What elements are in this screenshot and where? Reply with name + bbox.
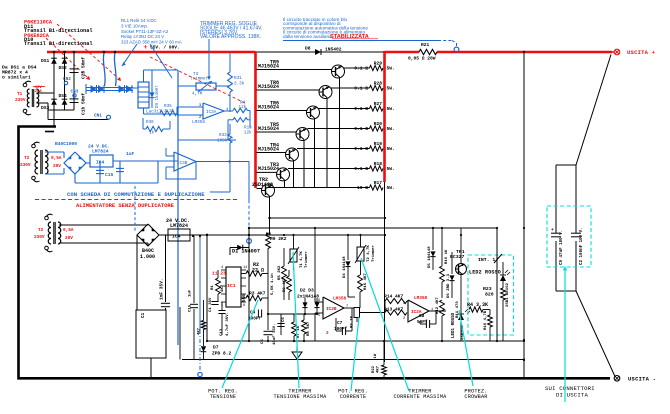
svg-text:USCITA +: USCITA +: [627, 50, 655, 56]
svg-text:1W: 1W: [374, 353, 378, 358]
svg-text:LED2 ROSSO: LED2 ROSSO: [469, 270, 501, 276]
svg-text:5W.: 5W.: [387, 86, 395, 92]
svg-text:5W.: 5W.: [387, 126, 395, 132]
svg-text:IC2B: IC2B: [326, 307, 337, 312]
svg-text:0.1 Ω: 0.1 Ω: [354, 146, 368, 152]
svg-text:Relay LY3NJ DC 24 V: Relay LY3NJ DC 24 V: [121, 34, 164, 39]
svg-text:R31: R31: [234, 76, 242, 81]
svg-text:D4 1N4148: D4 1N4148: [343, 256, 347, 278]
svg-text:230V: 230V: [20, 163, 31, 168]
svg-text:R6 4K7: R6 4K7: [283, 277, 287, 292]
svg-text:0.1 Ω: 0.1 Ω: [354, 166, 368, 172]
svg-text:3: 3: [199, 104, 201, 108]
svg-text:IC4: IC4: [172, 234, 181, 240]
svg-text:DI USCITA: DI USCITA: [556, 392, 588, 399]
svg-text:R27: R27: [374, 101, 383, 107]
svg-text:3.3k: 3.3k: [164, 109, 175, 114]
svg-text:TENSIONE: TENSIONE: [210, 394, 237, 400]
svg-text:5W.: 5W.: [387, 106, 395, 112]
svg-text:4K7: 4K7: [377, 365, 381, 373]
svg-text:LED1 ROSSO: LED1 ROSSO: [452, 312, 456, 338]
svg-text:LM358: LM358: [414, 296, 428, 301]
svg-text:12k: 12k: [239, 105, 247, 110]
svg-text:IC3B: IC3B: [177, 161, 188, 166]
svg-text:4,7uF 35V.: 4,7uF 35V.: [226, 312, 230, 336]
svg-text:USCITA -: USCITA -: [628, 377, 656, 383]
svg-text:dalla tensione ausiliarie: dalla tensione ausiliarie: [283, 34, 332, 39]
svg-text:T2: T2: [24, 156, 30, 161]
svg-text:LM358: LM358: [192, 120, 205, 125]
svg-text:3: 3: [403, 302, 405, 306]
svg-text:3.3k: 3.3k: [234, 82, 245, 87]
svg-text:R18: R18: [374, 161, 383, 167]
svg-text:R36: R36: [146, 120, 154, 125]
svg-text:D9 1N4007: D9 1N4007: [156, 85, 160, 108]
svg-text:1.000: 1.000: [140, 254, 155, 260]
svg-text:D6 ZRD 3.3: D6 ZRD 3.3: [447, 273, 451, 298]
svg-text:R22: R22: [372, 365, 376, 373]
svg-text:CON SCHEDA DI COMMUTAZIONE E D: CON SCHEDA DI COMMUTAZIONE E DUPLICAZION…: [67, 191, 205, 198]
svg-text:5: 5: [318, 314, 320, 318]
svg-text:MJ15024: MJ15024: [258, 63, 279, 69]
svg-text:C2b 50mf: C2b 50mf: [81, 57, 87, 79]
svg-text:T2 4,7K: T2 4,7K: [367, 245, 371, 262]
svg-text:5W.: 5W.: [387, 66, 395, 72]
svg-text:1: 1: [431, 308, 433, 312]
svg-text:T2: T2: [38, 228, 44, 233]
svg-text:0.1 Ω: 0.1 Ω: [354, 106, 368, 112]
svg-text:+: +: [551, 228, 554, 233]
svg-text:D1 1N4007: D1 1N4007: [232, 249, 260, 255]
svg-text:R29: R29: [374, 61, 383, 67]
svg-text:20V: 20V: [65, 236, 73, 241]
svg-text:0.1 Ω: 0.1 Ω: [354, 126, 368, 132]
svg-text:8: 8: [243, 304, 245, 308]
svg-text:20V: 20V: [53, 164, 61, 169]
svg-text:DS4: DS4: [59, 93, 68, 99]
svg-text:T1 4,7K: T1 4,7K: [300, 251, 304, 268]
svg-text:10uF 35V.: 10uF 35V.: [273, 323, 277, 345]
svg-text:2: 2: [326, 331, 329, 336]
svg-text:2x1N4148: 2x1N4148: [297, 294, 319, 300]
svg-text:LM358: LM358: [333, 297, 347, 302]
svg-text:C1: C1: [141, 312, 146, 318]
svg-text:DS3: DS3: [41, 105, 50, 111]
svg-text:LM7824: LM7824: [92, 149, 109, 155]
svg-text:DS2: DS2: [59, 65, 68, 71]
svg-text:R16 4,7B: R16 4,7B: [484, 310, 488, 330]
svg-text:Trimmer: Trimmer: [371, 245, 376, 262]
svg-text:C2 100nF 100 V.: C2 100nF 100 V.: [580, 227, 584, 265]
svg-text:2SB1 BE162: 2SB1 BE162: [506, 282, 510, 307]
svg-text:4,7M: 4,7M: [192, 92, 203, 97]
svg-text:R9 2K2: R9 2K2: [270, 236, 287, 242]
svg-text:6: 6: [318, 299, 320, 303]
svg-text:10 Ω: 10 Ω: [357, 185, 368, 191]
svg-text:4K7: 4K7: [221, 284, 225, 292]
svg-text:C15: C15: [189, 304, 193, 312]
svg-text:T1: T1: [17, 92, 23, 97]
svg-text:R1: R1: [211, 285, 215, 290]
svg-text:55V. / 90V.: 55V. / 90V.: [150, 45, 180, 51]
svg-text:TENSIONE MASSIMA: TENSIONE MASSIMA: [273, 394, 327, 400]
svg-text:1uF: 1uF: [189, 289, 193, 297]
svg-text:R7 1K: R7 1K: [297, 325, 301, 338]
svg-text:1: 1: [221, 304, 223, 308]
svg-text:R10 1K: R10 1K: [445, 249, 449, 264]
svg-text:0,5A: 0,5A: [63, 228, 74, 233]
svg-text:D7: D7: [213, 345, 219, 351]
svg-text:0.1 Ω: 0.1 Ω: [354, 66, 368, 72]
svg-text:0.1 Ω: 0.1 Ω: [354, 86, 368, 92]
svg-text:C7: C7: [337, 321, 343, 326]
svg-text:ALIMENTATORE SENZA DUPLICATORE: ALIMENTATORE SENZA DUPLICATORE: [76, 202, 175, 209]
svg-text:CORRENTE MASSIMA: CORRENTE MASSIMA: [393, 394, 447, 400]
svg-text:STABILIZZATA: STABILIZZATA: [330, 34, 369, 40]
svg-text:R19: R19: [374, 141, 383, 147]
svg-text:CROWBAR: CROWBAR: [464, 394, 487, 400]
svg-text:14: 14: [243, 266, 247, 270]
svg-text:CORRENTE: CORRENTE: [340, 394, 367, 400]
svg-text:2: 2: [403, 317, 405, 321]
svg-text:5W.: 5W.: [387, 185, 395, 191]
svg-text:100k: 100k: [217, 139, 228, 144]
svg-text:1uF: 1uF: [126, 151, 135, 157]
svg-text:5W.: 5W.: [387, 166, 395, 172]
svg-text:230V: 230V: [15, 98, 26, 103]
svg-text:B40C1000: B40C1000: [55, 141, 77, 147]
svg-text:LM7824: LM7824: [170, 223, 188, 229]
svg-text:R5 2K2: R5 2K2: [278, 265, 282, 280]
svg-text:C15: C15: [105, 172, 114, 178]
svg-text:0,5A: 0,5A: [51, 156, 62, 161]
svg-text:0,05 Ω 20W: 0,05 Ω 20W: [408, 56, 436, 62]
svg-text:MJ15024: MJ15024: [258, 104, 279, 110]
svg-text:MJ15024: MJ15024: [258, 166, 279, 172]
svg-text:Trimmer: Trimmer: [304, 251, 309, 268]
svg-text:C1 35V: C1 35V: [209, 297, 213, 312]
svg-text:o similari: o similari: [2, 75, 31, 81]
svg-text:R17: R17: [374, 180, 383, 186]
svg-text:C6: C6: [282, 317, 286, 322]
svg-text:MJ15024: MJ15024: [258, 84, 279, 90]
svg-text:R8 4K7: R8 4K7: [307, 321, 311, 336]
svg-text:R23: R23: [483, 286, 492, 292]
svg-text:7: 7: [346, 305, 348, 309]
svg-text:D8: D8: [305, 46, 311, 52]
svg-text:C1b 50mf: C1b 50mf: [81, 93, 87, 115]
svg-text:11 23: 11 23: [212, 271, 226, 277]
svg-text:5,6K 1-1n: 5,6K 1-1n: [271, 273, 275, 295]
svg-text:Socket PT11-13F-3Z-A2: Socket PT11-13F-3Z-A2: [121, 29, 169, 34]
svg-text:C9 47uF 100 V.: C9 47uF 100 V.: [560, 230, 564, 265]
svg-text:3 VIE 10Amp.: 3 VIE 10Amp.: [121, 23, 148, 28]
svg-text:R21: R21: [421, 42, 430, 48]
svg-text:820: 820: [485, 292, 494, 298]
svg-text:R12 4K7: R12 4K7: [436, 297, 440, 314]
svg-text:BC327: BC327: [450, 254, 465, 260]
svg-text:323 AZAD 358 mH 24 V 60 mA: 323 AZAD 358 mH 24 V 60 mA: [121, 40, 182, 45]
svg-text:DS1: DS1: [41, 58, 50, 64]
svg-text:4: 4: [221, 266, 223, 270]
svg-text:D2 D3: D2 D3: [300, 288, 314, 294]
svg-text:MJ15024: MJ15024: [258, 146, 279, 152]
svg-text:R33: R33: [219, 133, 227, 138]
svg-text:R28: R28: [374, 81, 383, 87]
svg-text:+: +: [144, 44, 148, 51]
svg-text:IC3A: IC3A: [206, 110, 217, 115]
svg-text:2: 2: [199, 116, 201, 120]
svg-text:1N5402: 1N5402: [325, 47, 342, 53]
svg-text:230V: 230V: [34, 235, 45, 240]
svg-text:1k: 1k: [149, 131, 155, 136]
svg-text:R20: R20: [374, 121, 383, 127]
svg-text:MJ15024: MJ15024: [258, 126, 279, 132]
svg-text:1: 1: [226, 108, 228, 112]
svg-text:CN1: CN1: [94, 114, 102, 119]
svg-text:5W.: 5W.: [387, 146, 395, 152]
svg-text:R2 1K: R2 1K: [351, 315, 355, 328]
svg-text:D5 1N4148: D5 1N4148: [428, 246, 432, 268]
svg-text:C8: C8: [419, 314, 425, 319]
svg-text:Trimmer: Trimmer: [190, 77, 208, 82]
svg-text:IC1: IC1: [227, 283, 236, 289]
svg-text:RL1 Relè 24 V.DC: RL1 Relè 24 V.DC: [121, 18, 157, 23]
svg-text:12k: 12k: [244, 131, 252, 136]
svg-text:1mF 35V.: 1mF 35V.: [159, 278, 165, 300]
svg-text:ZPD 8.2: ZPD 8.2: [212, 351, 232, 357]
